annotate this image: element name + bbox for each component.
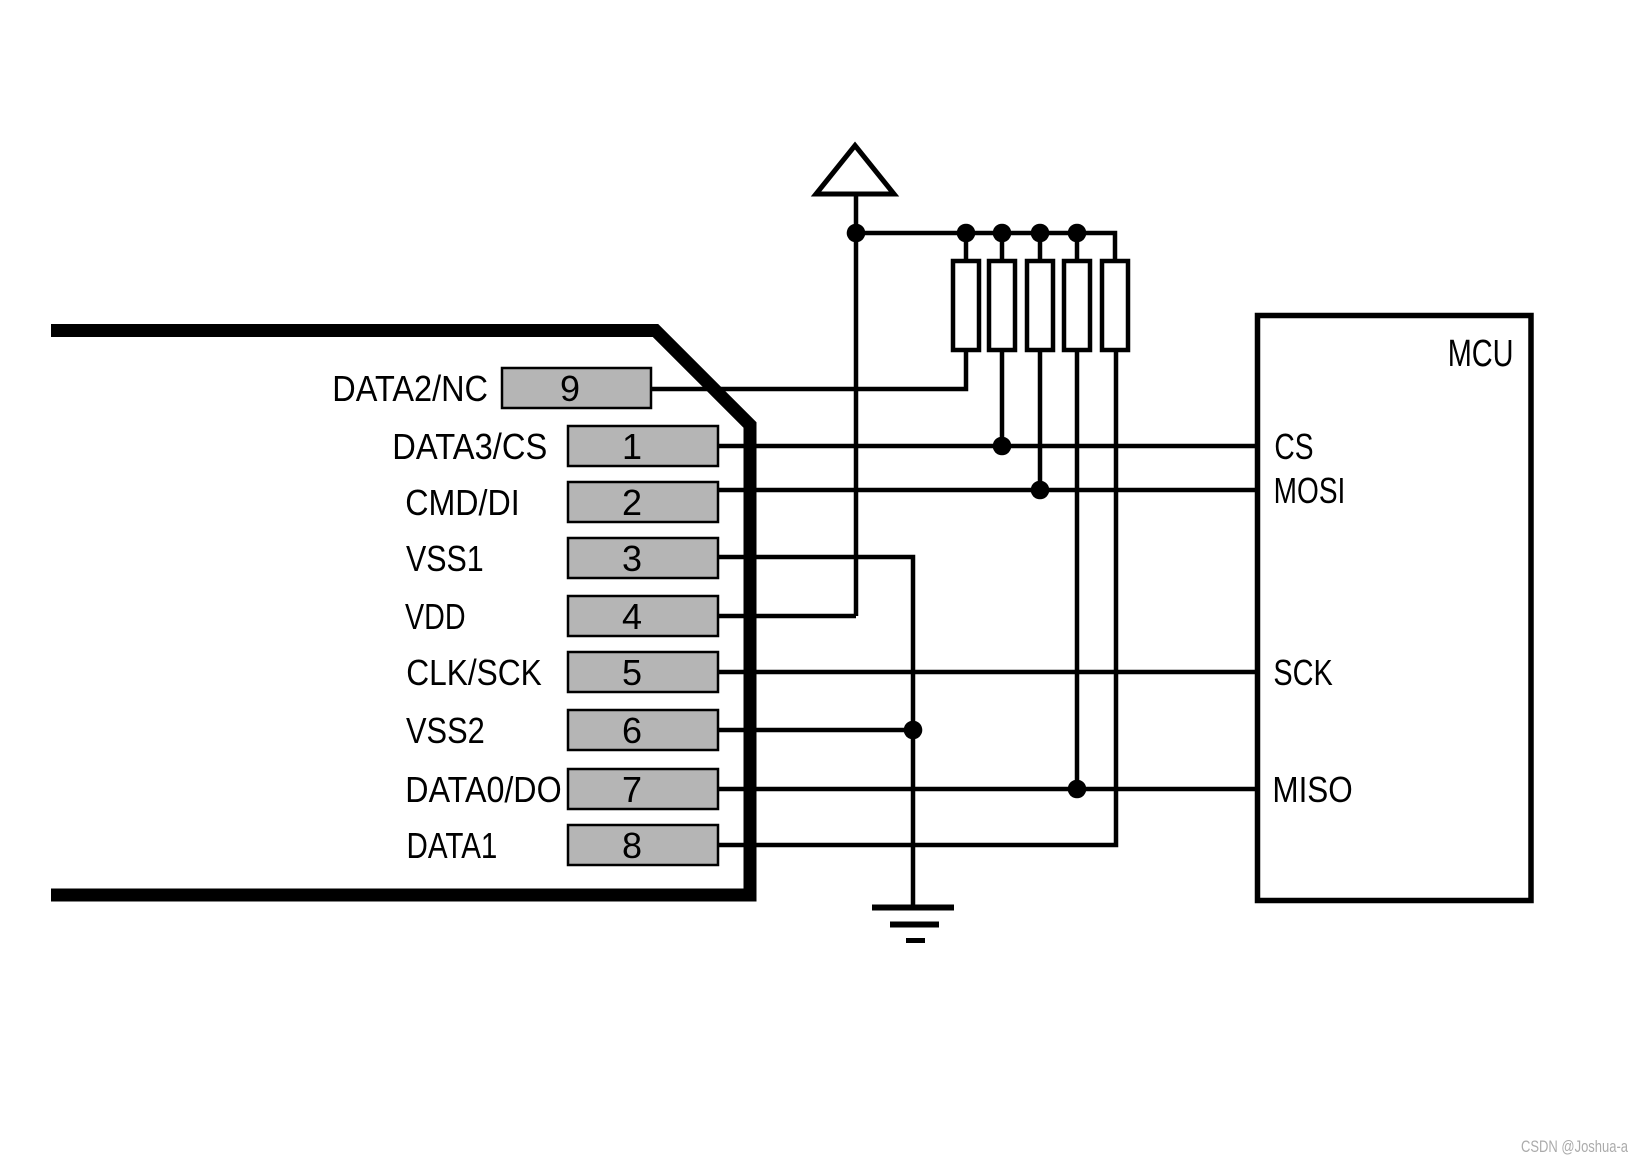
pin 7 pad [568, 769, 718, 809]
junction R4 top [1068, 224, 1087, 243]
resistor R3 [1027, 261, 1053, 350]
pin 2 pad [568, 482, 718, 522]
junction VSS2 ground [904, 721, 923, 740]
svg-text:5: 5 [622, 652, 642, 693]
svg-text:2: 2 [622, 482, 642, 523]
wire VSS2 pin6 to ground rail [719, 728, 913, 733]
wire CS net pin1 to MCU [719, 444, 1255, 449]
svg-text:VSS1: VSS1 [406, 540, 484, 580]
pin 1 pad [568, 426, 718, 466]
svg-text:8: 8 [622, 825, 642, 866]
wire top power rail [856, 233, 1115, 259]
resistor R1 [953, 261, 979, 350]
wire VSS1 pin3 to ground rail [719, 557, 913, 905]
wire pin9 DATA2 to R1 bottom [652, 352, 966, 389]
svg-text:DATA2/NC: DATA2/NC [332, 369, 488, 409]
resistor R5 [1102, 261, 1128, 350]
pin 5 pad [568, 652, 718, 692]
svg-text:VSS2: VSS2 [406, 712, 485, 752]
junction MISO net [1068, 780, 1087, 799]
wire R3 top lead [1038, 233, 1043, 259]
svg-text:VDD: VDD [405, 597, 466, 637]
svg-text:9: 9 [560, 368, 580, 409]
svg-text:CSDN @Joshua-a: CSDN @Joshua-a [1521, 1137, 1628, 1156]
ground [872, 908, 954, 941]
wire SCK net pin5 to MCU [719, 670, 1255, 675]
pin 3 pad [568, 538, 718, 578]
svg-text:4: 4 [622, 596, 642, 637]
pin 8 pad [568, 825, 718, 865]
junction R1 top [957, 224, 976, 243]
svg-text:MISO: MISO [1272, 770, 1352, 810]
junction MOSI net [1031, 481, 1050, 500]
MCU U1 box [1258, 316, 1532, 901]
wire VDD pin4 to power [719, 614, 856, 619]
svg-text:7: 7 [622, 769, 642, 810]
junction power rail [847, 224, 866, 243]
wire R2 bottom lead to CS net [1000, 352, 1005, 446]
junction R3 top [1031, 224, 1050, 243]
wire R3 bottom lead to MOSI net [1038, 352, 1043, 490]
resistor R4 [1064, 261, 1090, 350]
pin 6 pad [568, 710, 718, 750]
wire power vertical to VDD pin [854, 194, 859, 616]
svg-text:MCU: MCU [1448, 332, 1514, 375]
wire pin8 DATA1 to R5 bottom [719, 352, 1116, 845]
svg-text:CS: CS [1274, 427, 1313, 467]
svg-text:6: 6 [622, 710, 642, 751]
svg-text:CLK/SCK: CLK/SCK [406, 653, 542, 693]
svg-text:CMD/DI: CMD/DI [405, 483, 519, 523]
resistor R2 [989, 261, 1015, 350]
svg-text:DATA0/DO: DATA0/DO [405, 770, 561, 810]
power symbol VCC triangle [816, 146, 894, 195]
wire R2 top lead [1000, 233, 1005, 259]
SD card outline [51, 331, 750, 896]
wire MOSI net pin2 to MCU [719, 488, 1255, 493]
svg-text:SCK: SCK [1273, 652, 1333, 693]
junction R2 top [993, 224, 1012, 243]
svg-text:DATA1: DATA1 [407, 825, 498, 865]
wire R4 bottom lead to MISO net [1075, 352, 1080, 789]
wire R4 top lead [1075, 233, 1080, 259]
wire MISO net pin7 to MCU [719, 787, 1255, 792]
wire R1 top lead [964, 233, 969, 259]
svg-text:3: 3 [622, 538, 642, 579]
svg-text:1: 1 [622, 426, 642, 467]
pin 9 pad [502, 368, 651, 408]
svg-text:DATA3/CS: DATA3/CS [392, 428, 547, 468]
svg-text:MOSI: MOSI [1274, 471, 1346, 511]
pin 4 pad [568, 596, 718, 636]
junction CS net [993, 437, 1012, 456]
